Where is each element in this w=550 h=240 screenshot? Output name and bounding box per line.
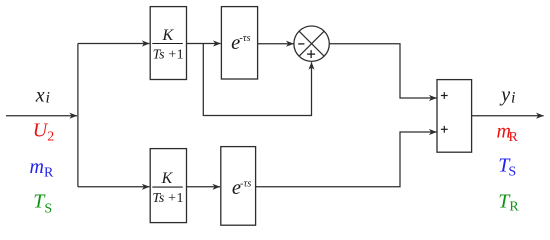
svg-text:K: K [161, 27, 174, 44]
block U1: K/(Ts+1) top [150, 7, 186, 80]
svg-text:Ts+1: Ts+1 [152, 191, 183, 206]
block U2: e^-ts delay top [221, 7, 257, 79]
plus sign top [441, 95, 448, 97]
wire: e2 to adder bottom input [256, 132, 437, 187]
block U3: K/(Ts+1) bottom [150, 149, 186, 223]
wire: summing junction to adder top input [329, 44, 436, 98]
wire: output line [472, 115, 544, 117]
svg-text:Ts+1: Ts+1 [153, 47, 184, 62]
wire: tap from node between K1 and e1 down, right and up into summing junction [203, 44, 311, 116]
svg-text:K: K [161, 170, 174, 187]
wire: K1 to e1 [187, 43, 221, 45]
wire: K2 to e2 [187, 186, 220, 188]
summing junction circle with X [294, 26, 329, 61]
plus sign bottom [441, 128, 448, 130]
wire: branch vertical [77, 44, 79, 187]
minus sign at left input [298, 43, 304, 45]
plus sign at bottom input [307, 53, 315, 55]
block U5: adder [437, 80, 472, 153]
wire: input line [6, 115, 77, 117]
wire: e1 to summing junction [258, 43, 294, 45]
wire: bottom branch into K block 2 [78, 186, 149, 188]
block U4: e^-ts delay bottom [221, 147, 256, 226]
wire: top branch into K block 1 [78, 43, 149, 45]
